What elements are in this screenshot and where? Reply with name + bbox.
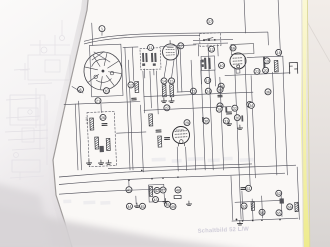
page right edge shading bbox=[302, 0, 303, 247]
wire top bus lower bbox=[84, 35, 200, 44]
wire mid column x bbox=[128, 60, 133, 170]
yellow book edge strip bbox=[299, 0, 310, 247]
wire bottom rail bbox=[232, 218, 298, 221]
wire af rail bbox=[144, 107, 231, 111]
output choke L8 bbox=[289, 62, 297, 73]
ground g4 bbox=[226, 121, 231, 126]
tube V2 ECH mixer bbox=[230, 53, 247, 70]
wire bus B0 bbox=[108, 164, 252, 169]
node 27 bbox=[164, 105, 170, 111]
svg-text:26: 26 bbox=[101, 116, 105, 120]
wire L4 leg bbox=[153, 69, 155, 75]
wire V1 to switch bbox=[160, 45, 196, 47]
capacitor C17 bbox=[153, 63, 156, 66]
node 34 bbox=[248, 102, 254, 108]
wire box corner link bbox=[72, 86, 83, 93]
resistor R10 bbox=[149, 186, 152, 196]
wire IFT2 left leg bbox=[200, 70, 203, 84]
capacitor C12 bbox=[218, 95, 222, 97]
svg-text:45: 45 bbox=[140, 205, 144, 209]
tube V2 cathode foot bbox=[236, 69, 240, 73]
node 26 bbox=[100, 114, 106, 120]
svg-text:55: 55 bbox=[277, 211, 281, 215]
svg-text:44: 44 bbox=[127, 205, 131, 209]
node 37 bbox=[207, 18, 213, 24]
wire mid link bbox=[177, 90, 194, 93]
wire R4 drop bbox=[273, 72, 277, 175]
wire B+ rail bbox=[144, 92, 253, 97]
svg-text:18: 18 bbox=[277, 51, 281, 55]
svg-text:0,1M: 0,1M bbox=[85, 117, 89, 124]
coil L9 winding bbox=[263, 56, 266, 69]
node 29 bbox=[184, 120, 190, 126]
wire tall column n bbox=[141, 105, 144, 172]
svg-text:35: 35 bbox=[235, 116, 239, 120]
rotary tuning capacitor C1 bbox=[83, 51, 123, 91]
resistor R12 bbox=[295, 202, 299, 212]
svg-text:1: 1 bbox=[101, 27, 103, 31]
wire long column k bbox=[220, 77, 224, 170]
node 15 bbox=[168, 78, 174, 84]
show-through marks bbox=[62, 154, 256, 207]
tube V2 shield box bbox=[231, 44, 254, 55]
wire switch drop right bbox=[217, 44, 219, 55]
node 20 bbox=[262, 67, 268, 73]
node 36 bbox=[265, 89, 271, 95]
wire grid column b bbox=[132, 48, 133, 81]
wire stub 41 bbox=[128, 181, 130, 186]
node 31 bbox=[223, 118, 229, 124]
wire switch drop left bbox=[197, 45, 199, 56]
wire top feed drop bbox=[244, 0, 245, 33]
wire antenna stub bbox=[101, 32, 103, 36]
node 17 bbox=[178, 43, 184, 49]
svg-text:28: 28 bbox=[217, 108, 221, 112]
wire bus B2 (curved) bbox=[59, 173, 285, 184]
node 21 bbox=[95, 98, 101, 104]
node 12b bbox=[208, 46, 214, 52]
svg-text:17: 17 bbox=[179, 44, 183, 48]
node antenna terminal A1 bbox=[99, 26, 105, 32]
switch contact c bbox=[214, 39, 216, 41]
wire right drop bbox=[297, 167, 299, 219]
wire mid-left link bbox=[116, 132, 145, 133]
node 32 bbox=[232, 105, 238, 111]
wire AVC line bbox=[64, 101, 140, 104]
switch box S1 bbox=[199, 33, 221, 47]
volume pot box bbox=[148, 184, 164, 202]
svg-text:36: 36 bbox=[266, 90, 270, 94]
resistor R9 bbox=[158, 136, 162, 147]
wire bus B3 (curved) bbox=[59, 189, 167, 194]
ground g1 bbox=[86, 160, 91, 165]
resistor R13 bbox=[251, 202, 255, 211]
resistor R1 bbox=[162, 85, 166, 97]
switch contact a bbox=[203, 39, 205, 41]
IF transformer Tr1 bbox=[140, 48, 161, 70]
coil L3 winding bbox=[145, 53, 147, 62]
resistor R8 bbox=[149, 114, 153, 126]
ground g10 bbox=[134, 203, 139, 208]
node 44 bbox=[126, 203, 132, 209]
svg-text:22: 22 bbox=[255, 70, 259, 74]
wire top antenna bus (curved, image space) bbox=[84, 32, 268, 41]
node 10 bbox=[103, 88, 109, 94]
svg-text:46: 46 bbox=[165, 203, 169, 207]
node 23 bbox=[190, 88, 196, 94]
svg-text:20: 20 bbox=[263, 69, 267, 73]
wire mid column g bbox=[180, 47, 182, 92]
node 41 bbox=[126, 187, 132, 193]
wire long column i bbox=[201, 60, 206, 170]
node 52 bbox=[276, 190, 282, 196]
node 47 bbox=[160, 187, 166, 193]
coil L5 winding bbox=[154, 53, 156, 62]
capacitor C16 bbox=[142, 63, 145, 66]
IF transformer Tr2 bbox=[201, 56, 215, 71]
node 18 bbox=[276, 49, 282, 55]
svg-text:14: 14 bbox=[162, 79, 166, 83]
wire bus B1 (curved) bbox=[59, 165, 296, 177]
coil L2 winding bbox=[142, 53, 144, 62]
svg-text:56: 56 bbox=[288, 205, 292, 209]
wire choke drop bbox=[283, 74, 287, 175]
node 24 bbox=[205, 88, 211, 94]
svg-text:21: 21 bbox=[96, 99, 100, 103]
svg-text:53: 53 bbox=[242, 205, 246, 209]
wire bottom drop c bbox=[280, 193, 283, 216]
wire bottom drop a bbox=[231, 176, 233, 220]
resistor R11 bbox=[174, 195, 181, 198]
wire V2 cathode long drop bbox=[235, 67, 241, 219]
junction dots bus bbox=[141, 170, 143, 172]
node 54 bbox=[259, 209, 265, 215]
switch contact b bbox=[208, 39, 210, 41]
resistor R2 bbox=[170, 85, 174, 97]
ghost print on left/turning page bbox=[5, 20, 70, 180]
wire column c bbox=[143, 71, 145, 113]
ground g7 bbox=[186, 201, 191, 206]
ground V1 cathode bbox=[161, 98, 166, 103]
svg-text:40: 40 bbox=[219, 64, 223, 68]
background table right side bbox=[295, 0, 330, 247]
capacitor C3 bbox=[241, 188, 246, 190]
capacitor C18 bbox=[202, 59, 204, 62]
coil L7 winding bbox=[208, 58, 211, 69]
main schematic page bbox=[53, 0, 304, 247]
wire stub v2c bbox=[236, 219, 238, 221]
node 8 bbox=[77, 86, 83, 92]
wire bottom drop b bbox=[261, 196, 264, 218]
ground screen bbox=[169, 98, 174, 103]
junction dots rail bbox=[242, 220, 244, 222]
wire C3 drop bbox=[242, 191, 243, 221]
node 16 bbox=[230, 45, 236, 51]
AF coupling box bbox=[87, 111, 117, 166]
wire tuner to IF transformer bbox=[123, 46, 138, 49]
page curl edge line bbox=[53, 0, 88, 247]
wire column d bbox=[150, 71, 152, 108]
ground g3 bbox=[106, 160, 111, 165]
wire column e bbox=[156, 71, 158, 114]
node 51 bbox=[245, 185, 251, 191]
svg-text:43: 43 bbox=[153, 198, 157, 202]
capacitor C7 bbox=[165, 137, 170, 139]
wire left edge drop 2 bbox=[75, 104, 78, 170]
tube V1 EF pentode bbox=[162, 40, 179, 60]
svg-text:52: 52 bbox=[277, 192, 281, 196]
node 30 bbox=[203, 118, 209, 124]
schematic drawing bbox=[60, 0, 304, 240]
node 17c bbox=[218, 83, 224, 89]
wire R13 leg bbox=[251, 199, 254, 221]
svg-text:37: 37 bbox=[208, 20, 212, 24]
wire plate drop bbox=[282, 56, 285, 74]
ground g9 bbox=[237, 220, 242, 225]
wire switch lower link bbox=[193, 42, 228, 45]
node 45 bbox=[139, 203, 145, 209]
svg-text:19: 19 bbox=[265, 59, 269, 63]
resistor R5 0.1M bbox=[90, 118, 94, 130]
svg-text:31: 31 bbox=[224, 119, 228, 123]
svg-text:12: 12 bbox=[209, 48, 213, 52]
loop antenna coil L1 bbox=[92, 51, 105, 60]
svg-text:30: 30 bbox=[204, 119, 208, 123]
resistor R6 bbox=[95, 137, 99, 149]
resistor R4 bbox=[274, 60, 278, 72]
node 55 bbox=[276, 210, 282, 216]
node 53 bbox=[241, 203, 247, 209]
tuner box T1 bbox=[89, 44, 123, 97]
node 48 bbox=[175, 187, 181, 193]
capacitor C15 series bbox=[241, 115, 243, 121]
capacitor C19 bbox=[202, 64, 204, 67]
ground g2 bbox=[98, 160, 103, 165]
svg-text:51: 51 bbox=[246, 187, 250, 191]
node 38 bbox=[217, 87, 223, 93]
wire AF output link bbox=[235, 200, 280, 202]
node 28 bbox=[216, 106, 222, 112]
svg-text:10: 10 bbox=[104, 89, 108, 93]
node 11 bbox=[147, 44, 153, 50]
wire long column h bbox=[191, 60, 196, 170]
wire top right feed bbox=[278, 0, 280, 56]
node 40 bbox=[218, 62, 224, 68]
wire long column j bbox=[208, 45, 213, 170]
node 33 bbox=[247, 101, 253, 107]
wire mid column f bbox=[176, 47, 178, 92]
capacitor C9 bbox=[279, 198, 284, 203]
capacitor C11 bbox=[132, 98, 137, 100]
wire detector drop bbox=[245, 58, 250, 186]
node 20b bbox=[254, 68, 260, 74]
capacitor C14 series bbox=[225, 106, 227, 112]
wire grid column a bbox=[125, 48, 130, 170]
svg-text:49: 49 bbox=[171, 205, 175, 209]
wire band switch link bbox=[193, 39, 233, 40]
resistor R3 bbox=[135, 81, 139, 92]
capacitor C6 bbox=[156, 130, 161, 132]
node 39 bbox=[217, 103, 223, 109]
svg-text:ECH81: ECH81 bbox=[176, 128, 185, 132]
svg-text:29: 29 bbox=[185, 121, 189, 125]
node 46 bbox=[164, 201, 170, 207]
svg-text:34: 34 bbox=[249, 104, 253, 108]
bottom-left page shadow bbox=[0, 202, 262, 247]
faint page edge diagonal in background bbox=[305, 18, 330, 62]
soft shadow left of curl edge bbox=[47, 0, 88, 247]
capacitor C8 bbox=[226, 112, 231, 114]
wire top bus end drop bbox=[267, 32, 270, 45]
capacitor C13 series bbox=[202, 117, 204, 122]
node 17b bbox=[205, 77, 211, 83]
wire IFT2 right leg bbox=[214, 70, 217, 86]
node 14 bbox=[161, 78, 167, 84]
svg-text:11: 11 bbox=[149, 46, 153, 50]
svg-text:27: 27 bbox=[165, 106, 169, 110]
svg-text:16: 16 bbox=[231, 46, 235, 50]
wire left edge drop bbox=[79, 101, 82, 170]
ground g6 bbox=[163, 198, 168, 203]
node 12 bbox=[128, 82, 134, 88]
coil L6 winding bbox=[204, 58, 207, 69]
wire under V2 bbox=[225, 73, 290, 76]
node 49 bbox=[170, 203, 176, 209]
svg-text:15: 15 bbox=[169, 79, 173, 83]
switch lever bbox=[204, 37, 213, 40]
svg-text:32: 32 bbox=[233, 107, 237, 111]
tube V3 ECH81 triode-hexode bbox=[172, 126, 190, 146]
wire column m bbox=[251, 76, 255, 178]
node 35 bbox=[234, 115, 240, 121]
svg-text:12: 12 bbox=[129, 83, 133, 87]
svg-text:23: 23 bbox=[191, 90, 195, 94]
svg-text:48: 48 bbox=[176, 188, 180, 192]
left page under the turning page bbox=[0, 0, 88, 247]
wire box feed bbox=[100, 104, 102, 112]
wire V3 leg 2 bbox=[185, 147, 188, 170]
wire V1 plate leg bbox=[163, 60, 168, 78]
wire stub 44 bbox=[135, 196, 137, 204]
coil L4 winding bbox=[151, 53, 153, 62]
wire V3 legs bbox=[177, 147, 178, 171]
wire V1 cathode leg bbox=[171, 60, 175, 78]
capacitor C5 electrolytic bbox=[100, 146, 104, 152]
node 19 bbox=[264, 58, 270, 64]
node 43 bbox=[152, 196, 158, 202]
wire antenna lead bbox=[91, 23, 94, 45]
node 42 bbox=[154, 187, 160, 193]
ground g5 bbox=[237, 125, 242, 130]
wire L3 leg bbox=[143, 69, 145, 78]
wire V2 plate right bbox=[247, 56, 283, 58]
resistor R7 bbox=[106, 138, 110, 150]
node 56 bbox=[287, 204, 293, 210]
capacitor C4 bbox=[102, 123, 107, 125]
